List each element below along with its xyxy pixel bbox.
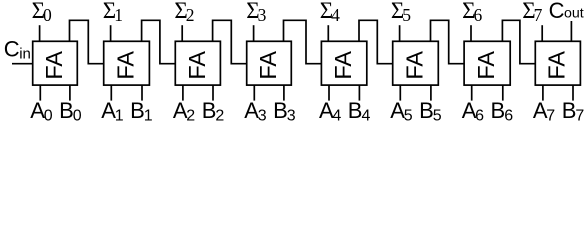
wire: input A0 stub: [39, 85, 41, 101]
wire: sum output S3 from FA3 top: [253, 25, 255, 41]
wire: input B4 stub: [358, 85, 360, 101]
wire: input B3 stub: [283, 85, 285, 101]
wire: carry from FA4 to FA5: [359, 20, 393, 63]
svg-text:FA: FA: [473, 51, 499, 80]
wire: input B6 stub: [502, 85, 504, 101]
wire: input A1 stub: [110, 85, 112, 101]
svg-text:Cin: Cin: [4, 36, 31, 62]
wire: sum output S0 from FA0 top: [39, 25, 41, 41]
full adder FA1: [104, 41, 150, 85]
svg-text:FA: FA: [113, 51, 139, 80]
svg-text:B4: B4: [348, 98, 371, 125]
wire: sum output S2 from FA2 top: [181, 25, 183, 41]
wire: carry from FA2 to FA3: [213, 20, 247, 63]
svg-text:FA: FA: [544, 51, 570, 80]
svg-text:FA: FA: [330, 51, 356, 80]
wire: carry out Cout from FA7: [570, 21, 572, 41]
svg-text:Σ7: Σ7: [522, 0, 542, 25]
svg-text:A7: A7: [533, 98, 555, 125]
svg-text:Σ5: Σ5: [391, 0, 411, 25]
svg-text:FA: FA: [255, 51, 281, 80]
wire: input A4 stub: [328, 85, 330, 101]
wire: sum output S4 from FA4 top: [327, 25, 329, 41]
wire: carry from FA5 to FA6: [431, 20, 465, 63]
wire: input A3 stub: [253, 85, 255, 101]
svg-text:FA: FA: [401, 51, 427, 80]
svg-text:B3: B3: [273, 98, 296, 125]
wire: input A7 stub: [542, 85, 544, 101]
svg-text:Σ3: Σ3: [246, 0, 266, 25]
svg-text:Σ2: Σ2: [174, 0, 194, 25]
svg-text:A4: A4: [319, 98, 341, 125]
svg-text:Σ6: Σ6: [462, 0, 482, 25]
svg-text:B5: B5: [419, 98, 442, 125]
wire: sum output S7 from FA7 top: [541, 25, 543, 41]
svg-text:FA: FA: [184, 51, 210, 80]
full adder FA2: [175, 41, 220, 85]
svg-text:FA: FA: [41, 51, 67, 80]
full adder FA4: [321, 41, 366, 85]
wire: Cin input into FA0 left side: [12, 63, 33, 65]
svg-text:Σ4: Σ4: [320, 0, 340, 25]
wire: input B2 stub: [212, 85, 214, 101]
full adder FA0: [33, 41, 78, 85]
wire: input B0 stub: [69, 85, 71, 101]
svg-text:A6: A6: [462, 98, 484, 125]
svg-text:B7: B7: [562, 98, 585, 125]
svg-text:A1: A1: [101, 98, 123, 125]
wire: carry from FA1 to FA2: [142, 20, 176, 63]
full adder FA7: [535, 41, 580, 85]
full adder FA5: [393, 41, 439, 85]
svg-text:A2: A2: [173, 98, 195, 125]
svg-text:B6: B6: [491, 98, 514, 125]
svg-text:Σ0: Σ0: [32, 0, 52, 25]
wire: sum output S1 from FA1 top: [110, 25, 112, 41]
svg-text:B0: B0: [59, 98, 82, 125]
svg-text:Σ1: Σ1: [103, 0, 123, 25]
wire: sum output S5 from FA5 top: [399, 25, 401, 41]
wire: input B1 stub: [141, 85, 143, 101]
wire: carry from FA3 to FA4: [284, 20, 322, 63]
wire: sum output S6 from FA6 top: [470, 25, 472, 41]
wire: carry from FA6 to FA7: [502, 20, 535, 63]
wire: input A2 stub: [182, 85, 184, 101]
wire: input B5 stub: [430, 85, 432, 101]
wire: input A5 stub: [399, 85, 401, 101]
svg-text:B1: B1: [130, 98, 153, 125]
svg-text:Cout: Cout: [549, 0, 584, 23]
svg-text:A5: A5: [390, 98, 412, 125]
full adder FA3: [247, 41, 292, 85]
wire: input B7 stub: [572, 85, 574, 101]
svg-text:B2: B2: [202, 98, 225, 125]
wire: carry from FA0 to FA1: [70, 20, 104, 63]
wire: input A6 stub: [471, 85, 473, 101]
full adder FA6: [464, 41, 510, 85]
svg-text:A0: A0: [30, 98, 52, 125]
svg-text:A3: A3: [244, 98, 266, 125]
